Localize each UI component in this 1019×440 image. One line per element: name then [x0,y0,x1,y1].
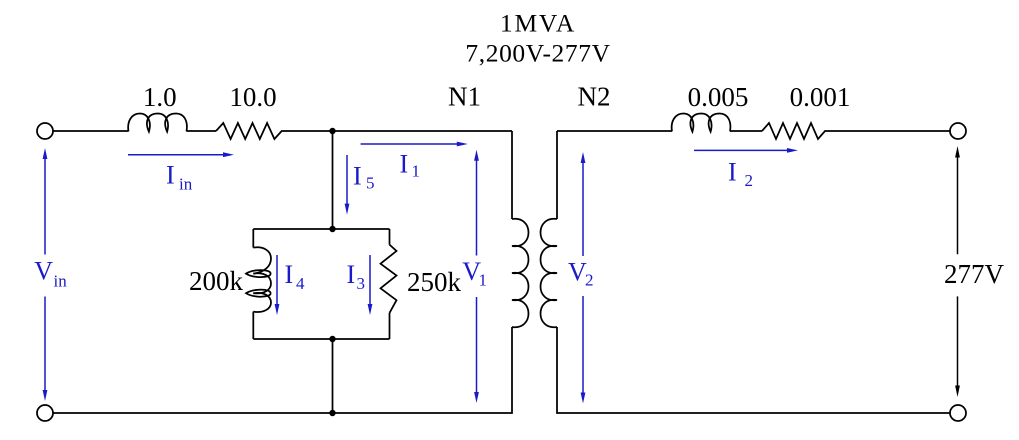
svg-text:277V: 277V [944,259,1005,289]
svg-text:7,200V-277V: 7,200V-277V [465,39,610,68]
svg-text:0.001: 0.001 [790,82,851,112]
svg-text:1MVA: 1MVA [500,9,576,38]
svg-text:1.0: 1.0 [143,82,177,112]
svg-text:V: V [34,256,53,285]
svg-text:10.0: 10.0 [229,82,276,112]
svg-text:I: I [347,260,356,289]
svg-text:2: 2 [745,171,754,190]
svg-text:in: in [54,272,68,291]
svg-text:N1: N1 [448,82,481,112]
svg-text:I: I [353,161,362,190]
svg-text:4: 4 [296,274,305,293]
svg-text:1: 1 [412,162,421,181]
svg-text:250k: 250k [407,267,462,297]
svg-text:I: I [285,260,294,289]
svg-text:in: in [179,175,193,194]
svg-text:3: 3 [357,274,366,293]
svg-text:I: I [400,150,409,179]
svg-text:I: I [166,160,175,189]
svg-text:200k: 200k [189,266,244,296]
svg-text:2: 2 [585,271,594,290]
svg-text:0.005: 0.005 [688,82,749,112]
svg-text:5: 5 [366,174,375,193]
svg-text:I: I [728,158,737,187]
svg-text:N2: N2 [578,82,611,112]
svg-text:1: 1 [479,271,488,290]
